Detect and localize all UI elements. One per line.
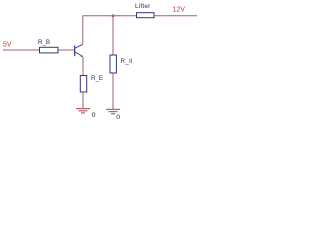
resistor R_ll — [110, 55, 116, 73]
wire junction to R_ll — [112, 16, 114, 56]
ground 0 left — [76, 109, 90, 113]
wire 5V to R_B — [3, 49, 40, 51]
wire collector to top rail — [83, 16, 113, 44]
wire R_ll to ground — [112, 73, 114, 110]
svg-text:5V: 5V — [3, 42, 12, 49]
svg-text:R_E: R_E — [91, 75, 103, 82]
resistor R_E — [80, 76, 86, 93]
svg-text:0: 0 — [92, 112, 96, 119]
resistor R_B — [40, 47, 59, 53]
resistor Lifter — [137, 13, 155, 18]
junction collector node — [112, 14, 115, 17]
wire Q1 emitter to R_E — [82, 57, 84, 76]
svg-text:0: 0 — [116, 114, 120, 121]
svg-text:R_ll: R_ll — [121, 58, 133, 65]
svg-text:R_B: R_B — [38, 39, 50, 46]
wire R_B to Q1 base — [58, 49, 74, 51]
ground 0 right — [106, 109, 120, 113]
wire R_E to ground — [82, 92, 84, 109]
wire top rail to Lifter — [113, 15, 137, 17]
wire Lifter to 12V — [154, 15, 197, 17]
transistor Q1 — [75, 44, 83, 57]
svg-text:12V: 12V — [173, 7, 186, 14]
svg-text:Lifter: Lifter — [135, 3, 151, 10]
